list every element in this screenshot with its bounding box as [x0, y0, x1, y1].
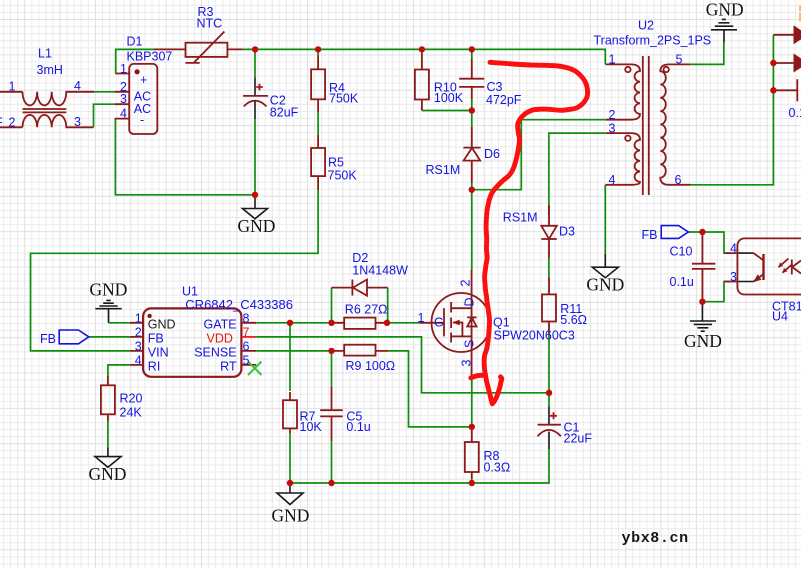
- svg-text:7: 7: [243, 326, 250, 340]
- svg-text:NTC: NTC: [197, 17, 223, 31]
- svg-text:GND: GND: [706, 0, 744, 19]
- svg-text:2: 2: [135, 326, 142, 340]
- svg-text:RS1M: RS1M: [503, 211, 538, 225]
- svg-text:SPW20N60C3: SPW20N60C3: [494, 329, 575, 343]
- svg-text:24K: 24K: [120, 405, 143, 419]
- svg-text:R9 100Ω: R9 100Ω: [346, 359, 396, 373]
- svg-text:3: 3: [730, 270, 737, 284]
- svg-text:5: 5: [676, 53, 683, 67]
- svg-text:R6 27Ω: R6 27Ω: [345, 303, 388, 317]
- svg-text:D: D: [463, 297, 477, 306]
- svg-text:4: 4: [120, 107, 127, 121]
- svg-text:C10: C10: [670, 245, 693, 259]
- svg-text:750K: 750K: [329, 92, 359, 106]
- svg-text:S: S: [463, 340, 477, 348]
- svg-text:1N4148W: 1N4148W: [352, 263, 408, 277]
- svg-text:1: 1: [120, 62, 127, 76]
- svg-text:G: G: [434, 315, 444, 329]
- svg-text:-: -: [140, 113, 144, 127]
- svg-text:82uF: 82uF: [270, 105, 299, 119]
- svg-text:0.1u: 0.1u: [346, 420, 370, 434]
- svg-text:RT: RT: [220, 360, 237, 374]
- svg-text:CR6842_C433386: CR6842_C433386: [185, 297, 293, 312]
- svg-text:VIN: VIN: [148, 346, 169, 360]
- svg-text:D1: D1: [127, 35, 143, 49]
- svg-text:GND: GND: [238, 216, 276, 236]
- svg-text:D6: D6: [484, 147, 500, 161]
- svg-text:GND: GND: [148, 317, 176, 331]
- svg-text:SENSE: SENSE: [194, 346, 236, 360]
- svg-text:3: 3: [609, 121, 616, 135]
- svg-text:4: 4: [74, 79, 81, 93]
- svg-text:GND: GND: [89, 280, 127, 300]
- svg-text:GND: GND: [684, 331, 722, 351]
- svg-text:10K: 10K: [300, 420, 323, 434]
- svg-text:U2: U2: [638, 19, 654, 33]
- svg-text:L1: L1: [38, 47, 52, 61]
- svg-text:5: 5: [243, 354, 250, 368]
- svg-text:1: 1: [609, 53, 616, 67]
- svg-text:R20: R20: [120, 392, 143, 406]
- svg-text:FB: FB: [642, 228, 658, 242]
- svg-text:GND: GND: [89, 464, 127, 484]
- svg-text:Transform_2PS_1PS: Transform_2PS_1PS: [594, 34, 712, 48]
- svg-text:4: 4: [730, 242, 737, 256]
- svg-text:3: 3: [74, 115, 81, 129]
- svg-text:GND: GND: [586, 274, 624, 294]
- svg-text:4: 4: [135, 354, 142, 368]
- svg-text:1: 1: [418, 311, 425, 325]
- svg-text:0.1u: 0.1u: [670, 275, 694, 289]
- svg-text:RI: RI: [148, 360, 161, 374]
- svg-text:GND: GND: [271, 506, 309, 526]
- svg-text:6: 6: [243, 340, 250, 354]
- svg-text:0.3Ω: 0.3Ω: [484, 461, 511, 475]
- svg-text:VDD: VDD: [207, 332, 233, 346]
- svg-text:2: 2: [9, 115, 16, 129]
- svg-text:FB: FB: [148, 332, 164, 346]
- svg-text:1: 1: [9, 80, 16, 94]
- svg-text:22uF: 22uF: [564, 432, 593, 446]
- svg-text:1: 1: [135, 311, 142, 325]
- svg-text:C3: C3: [487, 80, 503, 94]
- svg-text:GATE: GATE: [203, 317, 236, 331]
- svg-text:D3: D3: [559, 225, 575, 239]
- svg-text:3: 3: [460, 360, 474, 367]
- svg-text:KBP307: KBP307: [127, 50, 173, 64]
- svg-text:100K: 100K: [434, 91, 464, 105]
- svg-text:8: 8: [243, 311, 250, 325]
- svg-text:0.1: 0.1: [789, 106, 801, 120]
- svg-text:3: 3: [135, 340, 142, 354]
- svg-text:U4: U4: [772, 309, 788, 323]
- svg-text:5.6Ω: 5.6Ω: [560, 313, 587, 327]
- svg-text:R5: R5: [328, 156, 344, 170]
- svg-text:F: F: [0, 115, 3, 129]
- svg-text:750K: 750K: [328, 169, 358, 183]
- svg-text:RS1M: RS1M: [426, 163, 461, 177]
- svg-text:6: 6: [675, 173, 682, 187]
- svg-text:3: 3: [120, 92, 127, 106]
- svg-text:4: 4: [609, 173, 616, 187]
- svg-text:472pF: 472pF: [486, 93, 522, 107]
- svg-text:+: +: [140, 73, 147, 87]
- svg-text:FB: FB: [40, 332, 56, 346]
- svg-text:3mH: 3mH: [37, 63, 63, 77]
- svg-text:2: 2: [459, 280, 473, 287]
- svg-text:ybx8.cn: ybx8.cn: [622, 530, 689, 547]
- svg-text:2: 2: [609, 108, 616, 122]
